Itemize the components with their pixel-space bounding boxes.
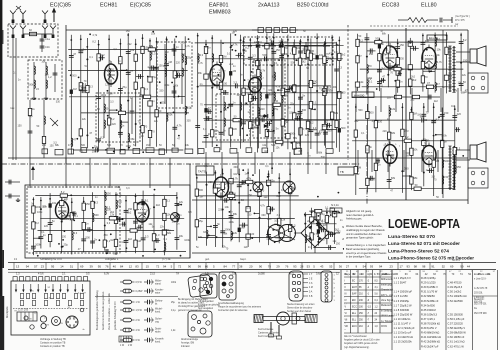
junction [222, 173, 224, 175]
wire feedback (dashed) [370, 25, 458, 27]
coil L27 [105, 192, 106, 200]
svg-text:20: 20 [249, 265, 253, 269]
wire [125, 196, 127, 253]
svg-text:100k: 100k [173, 85, 179, 88]
svg-text:C.51 100k/5n kΩ: C.51 100k/5n kΩ [448, 294, 467, 298]
connector TB pin [222, 275, 226, 279]
svg-text:55: 55 [329, 265, 333, 269]
svg-text:4 W: 4 W [136, 329, 141, 332]
wire [304, 212, 306, 252]
tube V4b ECC83 [383, 142, 397, 167]
connector J1 [468, 73, 488, 93]
wire [357, 34, 359, 91]
svg-text:EAF: EAF [352, 293, 357, 296]
svg-text:54: 54 [363, 265, 367, 269]
svg-text:EC(C)85: EC(C)85 [50, 3, 71, 9]
svg-text:500: 500 [107, 144, 112, 147]
wire [300, 39, 302, 154]
svg-text:ECH81: ECH81 [100, 3, 117, 9]
svg-text:1M: 1M [146, 144, 149, 147]
wire [367, 88, 369, 112]
resistor R8 [86, 86, 89, 93]
capacitor C99 [48, 223, 53, 225]
capacitor C12 [130, 111, 135, 113]
ground [44, 96, 48, 99]
PCB board outline [11, 281, 90, 335]
connector TA pin [203, 284, 207, 288]
coil L26 [93, 213, 94, 221]
svg-text:25µ: 25µ [187, 56, 192, 60]
wire [211, 35, 213, 147]
svg-text:150: 150 [444, 175, 449, 179]
antenna [10, 26, 16, 39]
resistor R87 [246, 180, 253, 183]
resistor R96 [281, 47, 284, 54]
wire [355, 104, 357, 195]
tuning socket pin [205, 281, 208, 284]
svg-text:3,3: 3,3 [277, 214, 281, 217]
coil T1d [182, 68, 183, 76]
capacitor C15 [154, 67, 159, 69]
resistor R51 [396, 68, 399, 75]
svg-text:68k: 68k [329, 230, 334, 234]
capacitor C38 [298, 97, 303, 99]
label box ELL80 [427, 35, 447, 40]
pictogram resistor row 7 [120, 338, 135, 342]
svg-text:3,3: 3,3 [322, 220, 326, 223]
tick [205, 263, 207, 270]
capacitor C91 [298, 111, 303, 113]
connector J1 pin 1 [471, 76, 475, 80]
svg-text:8,2: 8,2 [463, 38, 467, 42]
junction [300, 41, 302, 43]
junction [70, 74, 72, 76]
resistor R53 [409, 79, 412, 86]
junction [110, 233, 112, 235]
svg-text:Chassis bei: Chassis bei [381, 290, 393, 292]
wire [173, 86, 175, 98]
resistor R43 [273, 103, 280, 106]
svg-text:R.34 5n/500: R.34 5n/500 [421, 303, 435, 307]
svg-text:Angaben gelten je circuit 110: Angaben gelten je circuit 110 m den [344, 339, 380, 342]
svg-text:2k2: 2k2 [324, 120, 329, 123]
capacitor C113 [175, 204, 180, 206]
svg-text:VII: VII [345, 320, 348, 322]
resistor R58 [394, 67, 401, 70]
antenna [20, 26, 26, 39]
junction [94, 202, 96, 204]
svg-text:100k: 100k [28, 84, 34, 87]
wire [149, 158, 151, 188]
resistor R88 [228, 194, 235, 197]
junction [430, 70, 432, 72]
svg-text:zu 52 070-75:: zu 52 070-75: [474, 288, 488, 290]
wire terminal [451, 17, 453, 23]
svg-text:lyt: lyt [155, 302, 158, 305]
coil L21 [231, 231, 232, 239]
svg-text:100k: 100k [395, 64, 401, 68]
svg-text:3,3: 3,3 [113, 48, 117, 51]
capacitor C97 [39, 237, 44, 239]
capacitor C100 [73, 211, 75, 216]
resistor R34 [293, 113, 296, 120]
svg-text:C.61 1n/3,3 kΩ: C.61 1n/3,3 kΩ [448, 340, 465, 344]
svg-text:Ausgabe 1: Ausgabe 1 [105, 257, 119, 261]
resistor R114 [114, 216, 117, 223]
tick [45, 263, 47, 270]
junction [197, 86, 199, 88]
svg-text:2k2: 2k2 [412, 78, 417, 82]
wire stub [109, 109, 117, 111]
wire [456, 159, 470, 161]
junction [153, 206, 155, 208]
title block background [344, 204, 470, 261]
board pin arrow 6 [52, 284, 54, 293]
capacitor C73 [225, 198, 227, 203]
svg-text:0,1µ: 0,1µ [171, 310, 176, 312]
svg-text:69: 69 [450, 265, 454, 269]
junction [282, 44, 284, 46]
junction [304, 215, 306, 217]
antenna A2 [20, 11, 26, 24]
svg-text:TB: TB [340, 170, 344, 174]
wire [380, 88, 382, 112]
tube V8 ECC83 phono [135, 199, 149, 225]
junction [316, 90, 318, 92]
svg-text:0,1: 0,1 [89, 55, 93, 59]
parts list vline [391, 270, 393, 350]
coil L6 [185, 56, 186, 64]
tick [461, 263, 463, 270]
svg-text:Röhrenvolt-: Röhrenvolt- [381, 278, 393, 281]
resistor R46 [356, 39, 359, 46]
wire stub [231, 199, 235, 201]
junction [64, 230, 66, 232]
wire [35, 195, 177, 197]
capacitor C54 [382, 78, 384, 83]
junction [267, 176, 269, 178]
antenna [42, 26, 48, 39]
parts list vline [497, 270, 499, 350]
pictogram capacitor row 1 [144, 280, 154, 285]
junction [152, 31, 154, 33]
wire [331, 35, 333, 148]
junction [197, 35, 199, 37]
junction [99, 239, 101, 241]
DIN pin 4 [297, 281, 300, 284]
table A vline [350, 270, 352, 333]
svg-text:500: 500 [291, 62, 296, 65]
svg-text:150: 150 [400, 43, 405, 47]
wire [433, 103, 435, 196]
svg-text:12k: 12k [391, 107, 396, 111]
resistor R23 [204, 46, 207, 53]
svg-text:4 M: 4 M [309, 287, 313, 289]
svg-text:Auswechslung u. s. bei magisch: Auswechslung u. s. bei magischem [346, 243, 386, 247]
pictogram capacitor row 5 [144, 318, 154, 323]
junction [126, 247, 128, 249]
rectifier cell 1 [258, 28, 264, 33]
wire stub [121, 121, 128, 123]
svg-text:0,1: 0,1 [325, 207, 329, 210]
svg-text:1,3: 1,3 [16, 273, 20, 276]
coil L2 [34, 80, 35, 88]
svg-text:1M: 1M [137, 239, 141, 243]
svg-text:8,2: 8,2 [405, 135, 409, 139]
board edge connector pin 9 [64, 277, 68, 281]
electrolytic C98 [49, 203, 52, 207]
DIN pin 7 [295, 294, 298, 297]
wire [49, 193, 51, 247]
junction [227, 107, 229, 109]
svg-text:93: 93 [293, 265, 297, 269]
table A hline [344, 289, 392, 291]
resistor R71 [410, 148, 413, 155]
svg-text:500: 500 [245, 87, 250, 91]
svg-text:2k2: 2k2 [252, 61, 257, 64]
svg-text:500: 500 [313, 80, 318, 84]
board pin arrow 10 [81, 284, 83, 293]
capacitor C86 [329, 245, 331, 250]
wire [455, 150, 457, 172]
junction [343, 248, 345, 250]
junction [387, 74, 389, 76]
tick [333, 263, 335, 270]
svg-text:1.1 13 5n/1n pF: 1.1 13 5n/1n pF [394, 331, 412, 335]
tick [269, 263, 271, 270]
resistor R30 [256, 118, 259, 125]
capacitor C55 [395, 47, 400, 49]
wire stub [154, 240, 160, 242]
wire [334, 208, 336, 244]
capacitor C34 [286, 90, 291, 92]
svg-text:R.32 68k/50: R.32 68k/50 [421, 294, 435, 298]
capacitor C49 [365, 38, 370, 40]
svg-text:500: 500 [444, 159, 449, 163]
svg-text:220: 220 [139, 135, 144, 138]
tube V1 EC(C)85 [105, 61, 118, 87]
svg-text:071 / 075: 071 / 075 [455, 20, 465, 22]
junction [287, 39, 289, 41]
connector TB pin [229, 275, 233, 279]
capacitor C110 [141, 238, 146, 240]
resistor R18 [155, 110, 158, 117]
capacitor C77 [242, 180, 244, 185]
wire stub [308, 82, 316, 84]
junction [317, 196, 319, 198]
svg-text:ersetzt je ein zugeordnetes Ch: ersetzt je ein zugeordnetes Chassis [346, 251, 387, 255]
svg-text:1.1 5 1n/150: 1.1 5 1n/150 [394, 294, 409, 298]
junction [336, 44, 338, 46]
lamp La3 [171, 213, 180, 222]
wire antenna feed [15, 38, 17, 160]
capacitor C3 [69, 56, 74, 58]
junction [331, 54, 333, 56]
svg-text:3 S: 3 S [309, 283, 313, 285]
junction [247, 184, 249, 186]
wire [221, 152, 223, 174]
svg-text:1.1 12 4,7k/12k pF: 1.1 12 4,7k/12k pF [394, 326, 416, 330]
svg-text:Plaque de raccordement pour le: Plaque de raccordement pour les antennes [218, 305, 262, 308]
svg-text:Ansicht von der Lötseite aus g: Ansicht von der Lötseite aus gesehen [102, 291, 105, 330]
svg-text:Stecker-Fassung von unten: Stecker-Fassung von unten [287, 303, 315, 306]
antenna A4 arrow [52, 8, 56, 23]
board component [44, 300, 47, 305]
svg-text:150: 150 [252, 126, 257, 129]
capacitor C5 [78, 51, 83, 53]
component block bottom row [246, 148, 252, 153]
socket S4 pin 6 [73, 318, 75, 320]
svg-text:meter geg.: meter geg. [381, 283, 392, 286]
svg-text:220 V~ und: 220 V~ und [381, 295, 394, 297]
svg-text:100k: 100k [79, 85, 85, 88]
svg-text:1.1 7 25µ/8,2 W: 1.1 7 25µ/8,2 W [394, 303, 413, 307]
component block bottom row [42, 149, 48, 154]
electrolytic C82 [317, 229, 320, 233]
speaker LS2 [470, 142, 486, 162]
capacitor C115 [106, 249, 108, 254]
junction [278, 192, 280, 194]
svg-text:R.33 5n/68k nF: R.33 5n/68k nF [421, 299, 439, 303]
junction [460, 62, 462, 64]
pictogram capacitor row 7 [144, 338, 154, 343]
svg-text:100k: 100k [64, 217, 70, 221]
board component [32, 293, 35, 298]
svg-text:500: 500 [262, 53, 267, 57]
svg-text:2k2: 2k2 [128, 43, 133, 46]
capacitor C23 [204, 136, 209, 138]
wire [73, 149, 183, 151]
svg-text:3,3: 3,3 [145, 234, 149, 238]
resistor R19 [173, 71, 176, 78]
wire [149, 38, 151, 146]
capacitor C42 [323, 61, 328, 63]
svg-text:ECC: ECC [352, 307, 357, 309]
svg-text:330: 330 [104, 234, 109, 237]
svg-text:Druckplatte: Druckplatte [6, 306, 9, 318]
junction [205, 44, 207, 46]
phono amplifier block frame [25, 185, 190, 258]
ferrite rod bottom [263, 320, 305, 322]
capacitor C59 [459, 42, 464, 44]
junction [271, 167, 273, 169]
wire [220, 40, 222, 150]
capacitor C71 [213, 226, 218, 228]
svg-text:unabhängig zu regeln der Chass: unabhängig zu regeln der Chassis [346, 228, 385, 232]
resistor R91 [325, 216, 328, 223]
component block [408, 65, 412, 70]
svg-text:2k2: 2k2 [411, 75, 416, 78]
wire stub [311, 108, 315, 110]
svg-text:100k: 100k [164, 84, 170, 87]
socket S4 pin 2 [73, 325, 75, 327]
ferrite rod left end [254, 315, 263, 323]
wire [206, 172, 208, 246]
resistor R32 [293, 47, 296, 54]
svg-text:220: 220 [237, 94, 242, 97]
junction [290, 142, 292, 144]
resistor R29 [249, 122, 252, 129]
capacitor C43 [323, 132, 328, 134]
table A vline [357, 270, 359, 333]
capacitor C102 [90, 241, 95, 243]
junction [289, 173, 291, 175]
wire [173, 44, 175, 56]
component block [255, 61, 259, 66]
wire [357, 150, 359, 172]
junction [376, 88, 378, 90]
svg-text:Contacts in position TB: Contacts in position TB [40, 345, 65, 348]
wire stub [436, 134, 442, 136]
coil L24 [272, 108, 273, 116]
capacitor C94 [281, 43, 283, 48]
wire [197, 181, 292, 183]
DIN pin 6 [297, 288, 300, 291]
wire [166, 37, 168, 154]
DIN leader [303, 273, 308, 275]
chassis divider (dash-dot) [2, 163, 360, 165]
capacitor C60 [459, 84, 464, 86]
wire [5, 181, 20, 183]
junction [135, 43, 137, 45]
table separator [340, 270, 342, 350]
board socket S1 [40, 316, 46, 322]
wire [440, 88, 442, 112]
junction [268, 173, 270, 175]
junction [159, 81, 161, 83]
svg-text:25µ: 25µ [404, 128, 409, 132]
svg-text:8,2: 8,2 [187, 106, 191, 110]
svg-text:0,1: 0,1 [274, 61, 278, 65]
svg-text:500: 500 [94, 213, 99, 217]
capacitor C114 [175, 238, 180, 240]
wire [68, 49, 185, 51]
svg-text:100k: 100k [225, 227, 231, 231]
junction [278, 59, 280, 61]
wire [293, 42, 295, 60]
board pin arrow 5 [44, 284, 46, 293]
parts list vline [472, 270, 474, 350]
wire stub [79, 90, 88, 92]
junction [307, 63, 309, 65]
svg-text:500: 500 [369, 111, 374, 115]
junction [62, 239, 64, 241]
wire [32, 197, 34, 255]
svg-text:8,2: 8,2 [323, 45, 327, 48]
junction [434, 35, 436, 37]
capacitor C112 [156, 238, 158, 243]
capacitor C93 [334, 69, 339, 71]
junction [78, 77, 80, 79]
wire stub [328, 128, 337, 130]
wire [86, 38, 88, 148]
wire [98, 40, 100, 152]
capacitor C20 [96, 148, 98, 153]
decoder socket pin [191, 327, 195, 331]
svg-text:83: 83 [135, 265, 139, 269]
wire [355, 119, 457, 121]
coil L1 [34, 66, 35, 74]
component block bottom row [146, 148, 154, 153]
pictogram resistor row 2 [120, 289, 135, 293]
svg-text:C.55 150/330: C.55 150/330 [448, 312, 464, 316]
mains transformer Tr3 [268, 225, 296, 242]
coil T1b [165, 68, 166, 76]
board edge connector pin 4 [32, 277, 36, 281]
junction [295, 59, 297, 61]
board socket S6 [24, 316, 28, 320]
component block bottom row [198, 149, 204, 154]
